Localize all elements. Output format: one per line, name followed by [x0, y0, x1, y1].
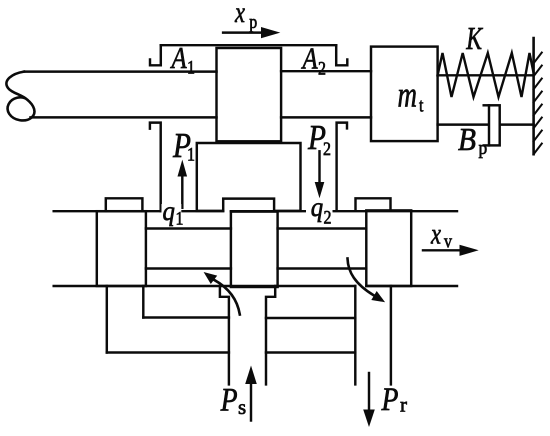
- damper rod line: [438, 123, 534, 125]
- svg-text:m: m: [398, 75, 417, 115]
- label P1: [172, 126, 195, 165]
- label A1: [170, 41, 195, 77]
- spool land right: [366, 210, 411, 286]
- inner horizontal right: [266, 317, 355, 319]
- svg-text:x: x: [234, 0, 245, 29]
- white knockout behind q1: [162, 204, 182, 225]
- label q2: [311, 192, 332, 228]
- svg-text:1: 1: [187, 143, 195, 165]
- spring centre line: [438, 74, 534, 76]
- fixed wall line: [532, 38, 535, 154]
- outer horizontal left: [107, 351, 229, 353]
- xp arrow: [223, 31, 268, 33]
- Ps arrow shaft: [250, 382, 252, 421]
- svg-text:p: p: [479, 137, 488, 158]
- P2 arrow shaft: [318, 151, 320, 184]
- inner horizontal left: [143, 316, 229, 318]
- label K: [465, 22, 483, 57]
- label Ps: [220, 381, 246, 419]
- damper flange top: [484, 104, 489, 106]
- svg-text:2: 2: [318, 57, 326, 79]
- port stub above left land: [106, 198, 143, 211]
- svg-text:P: P: [220, 381, 238, 418]
- cylinder cap bracket top-right: [336, 45, 347, 65]
- piston rod bottom line right: [281, 116, 371, 118]
- P1 arrow shaft: [181, 176, 183, 208]
- drain pipe below left land outer: [106, 286, 108, 353]
- cylinder cap bracket top-left: [150, 45, 161, 65]
- svg-text:A: A: [301, 42, 319, 76]
- svg-text:t: t: [419, 94, 424, 116]
- svg-text:2: 2: [324, 206, 332, 228]
- piston rod top line right: [281, 70, 371, 72]
- P1 arrowhead: [178, 160, 188, 177]
- Pr arrow shaft: [368, 373, 370, 412]
- P2 arrowhead: [315, 182, 325, 198]
- flow arrow right curve: [348, 259, 375, 296]
- label xv: [430, 216, 452, 251]
- svg-text:q: q: [163, 196, 175, 226]
- cylinder cap bracket bottom-right: [337, 123, 347, 211]
- load mass block m_t: [371, 47, 438, 142]
- port stub above right land: [356, 198, 391, 210]
- cylinder cap bracket bottom-left: [150, 123, 161, 212]
- svg-text:A: A: [170, 41, 188, 75]
- label P2: [307, 118, 331, 160]
- piston: [217, 48, 282, 141]
- supply pipe Ps right wall: [266, 286, 275, 384]
- piston rod top line left: [24, 70, 217, 72]
- return pipe Pr left wall: [354, 286, 356, 384]
- svg-text:x: x: [430, 216, 441, 250]
- drain pipe below left land inner: [142, 286, 144, 318]
- svg-text:s: s: [238, 395, 246, 419]
- spool land centre: [231, 212, 278, 287]
- svg-text:1: 1: [187, 56, 195, 78]
- svg-text:2: 2: [323, 138, 331, 160]
- valve sleeve bottom line: [54, 285, 457, 287]
- label Pr: [381, 381, 407, 418]
- piston rod bottom line left: [31, 116, 217, 118]
- valve sleeve top line: [54, 210, 457, 212]
- xv arrowhead: [460, 245, 479, 256]
- svg-text:v: v: [444, 230, 452, 252]
- label q1: [163, 196, 184, 229]
- svg-text:B: B: [458, 122, 476, 157]
- svg-text:q: q: [311, 192, 323, 222]
- label Bp: [458, 122, 487, 158]
- flow arrow left head: [204, 272, 218, 284]
- damper piston Bp: [489, 105, 500, 145]
- cylinder top wall: [161, 44, 336, 46]
- svg-text:p: p: [249, 10, 257, 32]
- spring K zigzag: [438, 53, 534, 97]
- svg-text:K: K: [465, 22, 483, 57]
- label A2: [301, 42, 326, 79]
- supply pipe Ps left wall: [220, 286, 229, 384]
- outer horizontal right: [266, 351, 355, 353]
- xv arrow: [423, 249, 467, 251]
- white knockout behind q2: [306, 202, 333, 223]
- Ps arrowhead: [245, 366, 257, 385]
- damper flange bottom: [484, 144, 489, 146]
- svg-text:P: P: [381, 381, 399, 418]
- label mt: [398, 75, 424, 116]
- wall hatching: [534, 53, 542, 155]
- return pipe Pr right wall: [390, 286, 392, 384]
- flow arrow right head: [371, 291, 385, 302]
- valve manifold block below piston: [197, 143, 301, 211]
- label xp: [234, 0, 257, 32]
- Pr arrowhead: [363, 410, 375, 428]
- spool land left: [97, 211, 146, 286]
- spool rod lines: [146, 229, 366, 269]
- piston rod left break squiggle: [6, 72, 34, 121]
- svg-text:r: r: [400, 393, 407, 417]
- svg-text:1: 1: [176, 207, 184, 229]
- flow arrow left curve: [214, 280, 240, 315]
- xp arrowhead: [261, 27, 280, 38]
